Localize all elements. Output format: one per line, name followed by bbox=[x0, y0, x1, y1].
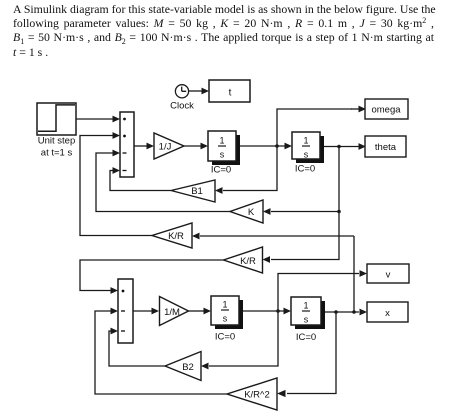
svg-text:K/R: K/R bbox=[240, 256, 256, 267]
wire theta branch to K and K/R lower bbox=[263, 147, 341, 263]
gain B2 bbox=[165, 352, 201, 381]
svg-text:IC=0: IC=0 bbox=[295, 164, 315, 175]
svg-text:1: 1 bbox=[222, 300, 227, 310]
svg-text:B1: B1 bbox=[191, 186, 203, 197]
wire K/R lower to sum2 bbox=[80, 260, 224, 294]
scope block v bbox=[367, 264, 409, 283]
svg-text:omega: omega bbox=[371, 105, 401, 116]
svg-text:x: x bbox=[385, 308, 390, 319]
gain K/R upper bbox=[152, 223, 192, 248]
display block t bbox=[209, 80, 250, 102]
sum S1 signs bbox=[123, 118, 127, 171]
integrator U2 (1/s IC=0) bbox=[292, 132, 324, 163]
gain B1 bbox=[171, 180, 215, 202]
svg-text:1/J: 1/J bbox=[159, 142, 172, 153]
wire step to sum1 bbox=[76, 116, 120, 123]
svg-text:1: 1 bbox=[303, 136, 308, 146]
svg-text:K/R: K/R bbox=[168, 231, 184, 242]
svg-text:s: s bbox=[304, 150, 309, 160]
svg-text:B2: B2 bbox=[182, 362, 194, 373]
wire v branch bbox=[278, 270, 367, 311]
svg-text:s: s bbox=[304, 315, 309, 325]
svg-text:s: s bbox=[223, 314, 228, 324]
integrator U1 (1/s IC=0) bbox=[208, 131, 240, 165]
svg-text:Clock: Clock bbox=[170, 101, 194, 112]
wire 1/M to integrator3 bbox=[189, 308, 212, 315]
svg-text:IC=0: IC=0 bbox=[211, 165, 231, 176]
integrator U3 (1/s IC=0) bbox=[211, 296, 243, 329]
wire B1 input branch bbox=[215, 146, 277, 194]
svg-text:theta: theta bbox=[375, 142, 397, 153]
svg-text:v: v bbox=[386, 270, 391, 281]
wire integrator2 to theta bbox=[324, 143, 366, 150]
gain K/R^2 bbox=[227, 378, 277, 410]
svg-text:Unit step: Unit step bbox=[38, 136, 76, 147]
wire integrator1 to integrator2 bbox=[240, 143, 292, 150]
integrator U4 (1/s IC=0) bbox=[291, 297, 325, 329]
sum S2 signs bbox=[121, 290, 125, 331]
wire K/R upper input from x bbox=[192, 233, 354, 312]
svg-text:K: K bbox=[248, 207, 255, 218]
gain 1/J bbox=[154, 133, 184, 159]
wire B2 to sum2 bbox=[109, 328, 165, 366]
wire sum1 to 1/J bbox=[134, 143, 154, 150]
svg-text:1/M: 1/M bbox=[164, 307, 180, 318]
wire B1 to sum1 bbox=[110, 167, 171, 190]
svg-text:s: s bbox=[220, 150, 225, 160]
svg-text:at t=1 s: at t=1 s bbox=[41, 148, 73, 159]
sum block S1 bbox=[120, 112, 134, 177]
gain K/R lower bbox=[224, 247, 263, 273]
wire K to sum1 bbox=[96, 150, 230, 212]
wire K/R upper to sum1 bbox=[80, 132, 152, 235]
gain 1/M bbox=[160, 297, 189, 326]
wire B2 input branch bbox=[201, 311, 278, 369]
sum block S2 bbox=[118, 279, 133, 343]
wire K/R^2 to sum2 bbox=[95, 308, 227, 394]
gain K bbox=[230, 200, 263, 223]
wire omega branch bbox=[277, 106, 366, 146]
svg-text:1: 1 bbox=[219, 136, 224, 146]
clock source bbox=[175, 85, 188, 98]
wire 1/J to integrator1 bbox=[184, 143, 208, 150]
wire integrator4 to x bbox=[325, 309, 367, 316]
scope block x bbox=[367, 302, 408, 322]
svg-text:IC=0: IC=0 bbox=[296, 332, 316, 343]
wire K input bbox=[263, 208, 339, 215]
wire integrator3 to integrator4 bbox=[243, 308, 291, 315]
wire sum2 to 1/M bbox=[133, 308, 159, 315]
svg-text:K/R^2: K/R^2 bbox=[244, 390, 270, 401]
svg-text:1: 1 bbox=[303, 301, 308, 311]
wire K/R^2 input branch bbox=[277, 312, 336, 397]
svg-text:t: t bbox=[229, 88, 232, 99]
scope block theta bbox=[365, 136, 406, 157]
unit step source bbox=[37, 103, 76, 135]
svg-text:IC=0: IC=0 bbox=[215, 332, 235, 343]
wire clock to t bbox=[189, 88, 209, 95]
scope block omega bbox=[365, 99, 408, 119]
